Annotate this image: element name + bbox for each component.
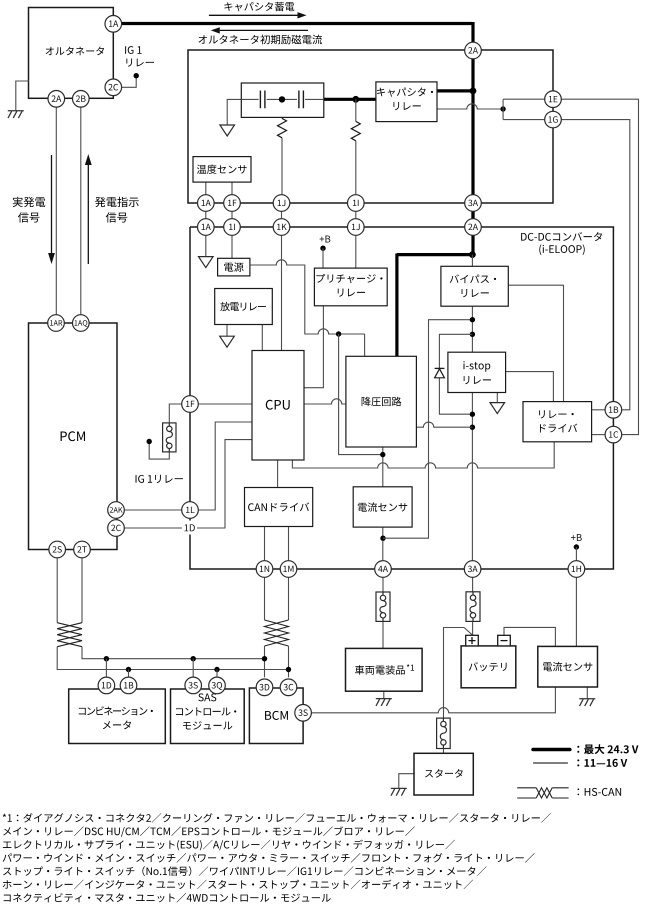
wire: step-down to current sensor to 4A	[382, 447, 384, 561]
wire: discharge relay to CPU	[261, 325, 263, 351]
wire: 1L to CPU	[197, 422, 252, 510]
node: +B 1H dot	[574, 544, 579, 549]
wire: relay driver to 1B	[592, 409, 606, 411]
wire: PCM 2S to twisted pair	[56, 558, 58, 623]
terminal 3A (DC-DC bottom)	[464, 561, 481, 578]
terminal 2A (capacitor top)	[465, 42, 482, 59]
label: IG1 relay	[136, 475, 183, 483]
wire: 3A to fuse to battery +	[472, 577, 474, 635]
node: bypass out dot 2	[470, 332, 475, 337]
wire: 1K to CPU	[281, 235, 283, 350]
wire: BCM 3S to current sensor	[311, 687, 555, 713]
terminal 1C (DC-DC right)	[605, 426, 622, 443]
CAN driver box	[245, 488, 313, 527]
terminal 1I (DC-DC row)	[224, 219, 241, 236]
wire: bus drop to 1D	[105, 659, 107, 678]
node: +B precharge dot	[320, 246, 325, 251]
label: generation command signal	[95, 197, 139, 207]
wire: thick node to bypass relay	[471, 255, 473, 267]
wire: 1D to CPU	[196, 440, 252, 528]
wire: starter ground lead	[399, 774, 414, 789]
relay driver box	[523, 402, 592, 442]
node: IG1 relay dot	[147, 439, 152, 444]
arrow: alternator initial excitation current (left)	[220, 29, 308, 31]
wire: battery - to current sensor	[504, 627, 555, 646]
wire: 2B to PCM 1AQ	[80, 107, 82, 315]
node: i-stop out dot 2	[470, 425, 475, 430]
wire: 1G to 1B loop	[561, 120, 630, 410]
thick wire: alternator 1A to capacitor line down to step-down circuit	[122, 22, 474, 356]
label: +B 1H	[571, 534, 582, 541]
node: 1E/1G branch dot	[500, 106, 505, 111]
wire: 1H to battery current sensor	[575, 577, 577, 646]
wire: i-stop relay to relay driver	[506, 372, 554, 402]
wire: i-stop node to step-down	[416, 422, 472, 427]
footnote line 4	[3, 853, 535, 863]
label: vehicle electrical equipment	[355, 665, 405, 674]
DC-DC converter box (i-ELOOP)	[190, 227, 613, 569]
wire: precharge relay return to CPU	[304, 306, 323, 388]
label: initial excitation current	[198, 35, 322, 45]
footnote line 2	[3, 826, 415, 837]
terminal 1A (capacitor row)	[198, 195, 215, 212]
ground: discharge relay (triangle)	[220, 336, 235, 347]
label: combination meter	[79, 706, 153, 715]
wire: discharge relay ground lead	[226, 325, 228, 337]
wire: IG1 relay to 1F	[169, 404, 181, 423]
current sensor box (DC-DC)	[353, 487, 412, 527]
CPU box	[252, 351, 304, 461]
label: temperature sensor	[197, 165, 247, 174]
wire: PCM 2AK to 1L	[124, 509, 181, 511]
wire: 1E to 1C outer loop	[561, 99, 638, 434]
wire: 4A to fuse to electrical equipment	[382, 577, 384, 648]
current sensor box (battery)	[538, 646, 598, 687]
wire: 1A to ground	[205, 235, 207, 256]
component: fuse below 4A	[376, 592, 390, 621]
terminal 1E (capacitor)	[545, 91, 562, 108]
wire: capacitor bank to ground	[227, 99, 241, 125]
temperature sensor box	[193, 157, 251, 183]
wire: bypass relay to relay driver	[508, 285, 563, 401]
wire: power supply to step-down node	[250, 260, 365, 357]
wire: IG1 relay branch	[149, 442, 169, 460]
precharge relay box	[314, 268, 387, 306]
wire: +B to precharge relay	[322, 248, 324, 268]
legend: HS-CAN	[577, 788, 621, 796]
terminal 2C (PCM)	[108, 520, 125, 537]
wire: bypass branch to current sensor line	[383, 320, 472, 539]
wire: row1-row2 terminal links	[206, 211, 356, 219]
wire: twisted pair to 3D	[264, 646, 266, 677]
thick wire: capacitor bank to capacitor relay	[324, 98, 376, 101]
wire: i-stop relay ground lead	[496, 393, 498, 403]
node: IG1 relay contact dot	[134, 73, 139, 78]
terminal 3S (BCM side)	[295, 705, 312, 722]
label: +B precharge	[320, 236, 331, 243]
combination meter box	[69, 689, 166, 744]
power supply box	[218, 258, 250, 276]
wire: battery + to starter branch	[444, 628, 473, 719]
label: capacitor charging	[224, 2, 294, 11]
label: starter	[425, 769, 463, 778]
capacitor C2	[297, 91, 305, 109]
terminal 3D (BCM)	[256, 679, 273, 696]
terminal 2C (alternator)	[105, 79, 122, 96]
capacitor C1	[259, 91, 267, 109]
terminal 1A (DC-DC row)	[198, 219, 215, 236]
label: current sensor (DC-DC)	[358, 502, 407, 511]
label: current sensor (battery)	[543, 662, 592, 671]
terminal 1H (DC-DC bottom)	[568, 561, 585, 578]
BCM box	[249, 688, 303, 744]
label: DC-DC converter	[521, 232, 602, 241]
label: 1D terminal text	[182, 521, 197, 535]
thick wire: capacitor relay to main thick line	[437, 89, 474, 92]
legend: HS-CAN twisted pair sample	[517, 788, 568, 798]
capacitor unit box	[188, 50, 553, 203]
terminal 3A (capacitor row)	[465, 195, 482, 212]
label: capacitor relay	[377, 87, 433, 96]
terminal 2T (PCM)	[74, 541, 91, 558]
thick wire: 3A to 2A link	[471, 211, 474, 219]
wire: diode loop	[439, 334, 472, 414]
terminal 1B (combination meter)	[120, 677, 137, 694]
terminal 1G (capacitor)	[545, 111, 562, 128]
wire: capacitor relay aux to 1E/1G node	[437, 104, 503, 109]
wire: resistor R1 lead to 1J	[281, 99, 283, 194]
junction: thick at capacitor relay	[470, 88, 477, 95]
terminal 2B (alternator)	[73, 91, 90, 108]
wire: 1M to twisted pair	[288, 577, 290, 620]
terminal 1J (DC-DC row)	[348, 219, 365, 236]
ground: electrical equipment (chassis)	[376, 699, 392, 706]
wire: CPU to relay driver	[292, 442, 554, 468]
label: step-down circuit	[362, 397, 402, 406]
node: bus dot 1B	[126, 667, 131, 672]
terminal 1AQ (PCM)	[73, 315, 90, 332]
wire: PCM 2C to 1D	[124, 527, 183, 529]
node: bus dot 1D	[104, 656, 109, 661]
node: power line junction	[336, 331, 341, 336]
discharge relay box	[215, 289, 273, 325]
wire: capacitor bank internal bus	[241, 98, 323, 100]
node: bypass out dot 1	[470, 317, 475, 322]
terminal 2A (DC-DC row)	[465, 219, 482, 236]
wire: +B to 1H	[575, 547, 577, 561]
wire: i-stop relay down to 3A	[471, 393, 473, 561]
terminal 1AR (PCM)	[48, 315, 65, 332]
terminal 1N (DC-DC bottom)	[256, 561, 273, 578]
node: bus dot 3S	[191, 656, 196, 661]
wire: 1F to CPU to step-down	[198, 399, 346, 404]
ground: DC-DC 1A (triangle)	[199, 257, 214, 268]
junction: thick corner node	[469, 251, 476, 258]
arrow: capacitor charging (right)	[209, 14, 298, 16]
i-stop relay box	[448, 352, 506, 392]
wire: resistor R2 lead to 1I	[355, 99, 357, 195]
component: fuse below 3A	[466, 592, 480, 622]
footnote line 7	[4, 893, 331, 903]
node: capacitor midpoint	[279, 96, 285, 102]
label: i-stop relay	[463, 361, 490, 372]
wire: 1J to precharge relay	[355, 235, 357, 268]
diode D1	[435, 368, 445, 377]
resistor R2	[349, 121, 362, 140]
battery box	[461, 635, 516, 688]
bypass relay box	[441, 266, 508, 306]
ground: capacitor bank (triangle)	[220, 125, 235, 136]
label: IG 1 relay (alternator)	[125, 46, 141, 54]
terminal 1K (DC-DC row)	[273, 219, 290, 236]
wire: bus drop to 3Q	[216, 670, 218, 678]
label: precharge relay	[316, 274, 382, 283]
capacitor bank box	[241, 83, 323, 117]
wire: bus drop to 3S	[192, 659, 194, 678]
label: SAS control module	[198, 693, 216, 701]
terminal 1F (DC-DC left)	[182, 396, 199, 413]
wire: 1I to power supply box	[231, 235, 233, 258]
legend: thick line sample	[533, 748, 570, 752]
terminal 1D (combination meter)	[98, 677, 115, 694]
wire: CAN-H bus (upper)	[82, 647, 265, 659]
ground: starter (chassis)	[391, 788, 407, 795]
terminal 3S (SAS)	[185, 677, 202, 694]
terminal 1B (DC-DC right)	[605, 402, 622, 419]
footnote line 6	[3, 880, 473, 890]
wire: CAN driver to 1N/1M	[265, 527, 289, 561]
terminal 4A (DC-DC bottom)	[375, 561, 392, 578]
terminal 1L (DC-DC left)	[182, 502, 199, 519]
ground: battery current sensor (chassis)	[579, 699, 595, 706]
node: current sensor top junction	[380, 452, 385, 457]
label: alternator	[46, 47, 104, 56]
label: relay driver	[539, 410, 574, 418]
footnote line 1	[3, 813, 551, 823]
label: CAN driver	[248, 502, 309, 511]
label: CPU	[266, 400, 290, 410]
resistor R1	[276, 118, 289, 137]
wire: bypass relay down to i-stop relay	[471, 306, 473, 352]
wire: branch to 1E and 1G	[503, 99, 545, 119]
step-down circuit box	[346, 356, 417, 447]
footnote line 3	[3, 840, 455, 851]
label: PCM	[61, 431, 85, 441]
label: bypass relay	[450, 274, 496, 283]
wire: relay driver to 1C	[592, 434, 606, 436]
wire: 2A to PCM 1AR	[55, 107, 57, 315]
label: battery	[469, 662, 507, 671]
wire: current sensor ground lead	[586, 687, 588, 699]
wire: PCM 2T to twisted pair	[81, 558, 83, 623]
vehicle electrical equipment box	[346, 648, 423, 691]
wire: fuse to starter	[443, 749, 445, 754]
ground: alternator (chassis)	[8, 111, 24, 118]
terminal 2A (alternator)	[48, 91, 65, 108]
footnote line 5	[3, 866, 487, 876]
wire: alternator 2C to IG1 relay contact	[122, 77, 137, 87]
ground: i-stop relay (triangle)	[490, 403, 505, 414]
wire: bus drop to 1B	[128, 670, 130, 678]
label: power supply	[224, 262, 243, 271]
legend: thin line sample	[533, 762, 568, 764]
wire: power line down to current sensor node	[339, 334, 383, 455]
terminal 2AK (PCM)	[108, 502, 125, 519]
label: BCM	[265, 711, 288, 720]
node: current sensor bottom junction	[380, 536, 385, 541]
SAS control module box	[171, 689, 245, 744]
terminal 1J (capacitor row)	[273, 195, 290, 212]
wire: capacitor bank inner lead	[241, 98, 323, 100]
terminal 1A (alternator)	[105, 15, 122, 32]
component: IG1 relay	[163, 423, 176, 452]
wire: CAN-L bus (lower)	[57, 647, 288, 670]
PCM box	[29, 323, 118, 550]
arrow: actual generation signal (down)	[51, 155, 53, 253]
wire: electrical equipment ground lead	[383, 691, 385, 698]
node: i-stop out dot 1	[470, 412, 475, 417]
legend: max 24.3V	[577, 744, 638, 754]
wire: CPU to CAN driver	[277, 460, 279, 488]
component: fuse above starter	[437, 718, 451, 748]
label: discharge relay	[220, 302, 266, 311]
label: actual generation signal	[13, 197, 46, 207]
capacitor relay box	[376, 82, 437, 122]
wire: alternator ground lead	[16, 81, 29, 111]
arrow: generation command signal (up)	[87, 165, 89, 264]
wire: twisted pair to 3C	[288, 646, 290, 677]
wire: temperature sensor leads	[206, 182, 232, 195]
node: bus dot 3D	[262, 656, 267, 661]
junction: thick resistor tap	[352, 96, 359, 103]
twisted pair: DC-DC side	[265, 620, 289, 646]
alternator box	[29, 8, 114, 99]
terminal 2S (PCM)	[49, 541, 66, 558]
node: bus dot 3C	[286, 667, 291, 672]
terminal 1M (DC-DC bottom)	[280, 561, 297, 578]
wire: 1N to twisted pair	[264, 577, 266, 620]
terminal 1I (capacitor row)	[348, 195, 365, 212]
terminal 1F (capacitor row)	[224, 195, 241, 212]
legend: 11-16V	[577, 759, 627, 767]
terminal 3Q (SAS)	[209, 677, 226, 694]
starter box	[414, 753, 473, 795]
twisted pair: PCM side	[57, 623, 82, 647]
node: bus dot 3Q	[214, 667, 219, 672]
terminal 3C (BCM)	[280, 679, 297, 696]
